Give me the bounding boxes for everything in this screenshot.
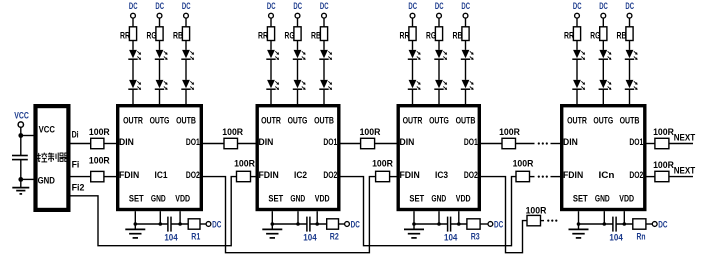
wire ICn cap to VDD junction <box>616 223 633 225</box>
svg-text:DO2: DO2 <box>186 169 200 180</box>
node ICn SET junction <box>577 222 581 226</box>
wire DO2 NEXT stub <box>669 176 693 178</box>
wire LED2 to IC2 OUTB pin <box>323 89 325 104</box>
IC3 pin label DIN <box>400 136 415 147</box>
wire resistor to IC2 FDIN <box>251 176 256 178</box>
resistor 100R (IC2 DO1 to IC3 DIN) <box>360 126 381 149</box>
svg-text:OUTB: OUTB <box>620 115 640 126</box>
capacitor C3 104 (IC3 decoupling) <box>444 217 458 243</box>
wire LED1 to LED2 (IC1 R) <box>132 59 134 80</box>
svg-text:DO2: DO2 <box>464 169 478 180</box>
ground (controller supply) <box>12 179 29 194</box>
LED D4R2 <box>572 80 585 90</box>
svg-text:104: 104 <box>609 232 623 243</box>
ground (IC1 SET/GND) <box>125 224 145 238</box>
LED D1B2 <box>181 80 194 90</box>
IC3 designator label <box>435 169 448 180</box>
svg-text:NEXT: NEXT <box>674 165 696 176</box>
resistor RR (IC1 R channel) <box>120 27 137 41</box>
ICn pin label DIN <box>563 136 578 147</box>
svg-text:DC: DC <box>573 0 582 11</box>
wire LED1 to LED2 (ICn G) <box>602 59 604 80</box>
LED D1G2 <box>155 80 168 90</box>
wire DC to resistor RB (IC3) <box>465 18 467 27</box>
wire DC to resistor RB (ICn) <box>629 18 631 27</box>
resistor 100R (Di series) <box>89 126 110 149</box>
svg-text:104: 104 <box>444 232 458 243</box>
wire from resistor to chain dots <box>516 143 535 145</box>
svg-text:DC: DC <box>494 218 503 229</box>
net label Fi <box>72 158 80 169</box>
wire IC1 SET to GND rail <box>135 223 168 225</box>
resistor RB (IC3 B channel) <box>453 27 470 41</box>
svg-text:RR: RR <box>258 30 268 41</box>
wire ICn DO1 out <box>647 143 655 145</box>
svg-text:ICn: ICn <box>599 169 615 180</box>
wire ICn SET pin drop <box>578 211 580 224</box>
svg-text:GND: GND <box>38 174 55 185</box>
resistor 100R (IC3 DO2 chain) <box>526 205 547 226</box>
wire IC2 DO2 routed toward ICn FDIN <box>341 177 517 246</box>
wire Fi from controller <box>71 176 91 178</box>
DC supply terminal (IC2 G column) <box>293 0 302 18</box>
wire LED2 to IC1 OUTB pin <box>185 89 187 104</box>
svg-text:RR: RR <box>120 30 130 41</box>
svg-text:RG: RG <box>590 30 600 41</box>
resistor 100R (IC1 DO2 to IC3 FDIN) <box>372 158 393 182</box>
svg-text:RB: RB <box>173 30 183 41</box>
svg-text:DC: DC <box>129 0 138 11</box>
resistor 100R (IC3 DO1 toward ICn DIN) <box>499 126 520 149</box>
node IC3 GND junction <box>437 222 441 226</box>
DC supply terminal (IC2 VDD) <box>345 218 360 229</box>
ICn pin label DO1 <box>629 136 643 147</box>
wire ICn GND pin drop <box>603 211 605 224</box>
wire LED1 to LED2 (IC2 B) <box>323 59 325 80</box>
svg-text:R3: R3 <box>471 230 480 241</box>
IC1 pin labels OUTR OUTG OUTB <box>123 115 196 126</box>
IC2 designator label <box>294 169 307 180</box>
svg-text:GND: GND <box>595 192 610 203</box>
svg-text:OUTB: OUTB <box>176 115 196 126</box>
IC IC1 box <box>118 106 202 210</box>
wire IC3 GND pin drop <box>438 211 440 224</box>
net label NEXT (DO1) <box>674 132 696 143</box>
wire IC2 resistor to DC terminal <box>339 223 345 225</box>
wire IC2 GND pin drop <box>297 211 299 224</box>
wire Fi2 routed to FDIN resistor of IC2 <box>71 177 237 246</box>
svg-text:RG: RG <box>285 30 295 41</box>
LED D1G1 <box>155 50 168 60</box>
IC IC2 box <box>257 106 339 210</box>
svg-text:Fi: Fi <box>72 158 80 169</box>
resistor RB (IC2 B channel) <box>311 27 328 41</box>
capacitor C4 104 (ICn decoupling) <box>609 217 623 243</box>
resistor R3 (IC3 supply) <box>467 219 480 242</box>
LED D4B1 <box>625 50 638 60</box>
resistor RR (ICn R channel) <box>564 27 581 41</box>
LED D4B2 <box>625 80 638 90</box>
DC supply terminal (ICn VDD) <box>652 218 667 229</box>
LED D3G2 <box>434 80 447 90</box>
wire DC to resistor RR (IC1) <box>132 18 134 27</box>
svg-text:DIN: DIN <box>400 136 415 147</box>
svg-text:RR: RR <box>400 30 410 41</box>
svg-text:FDIN: FDIN <box>400 169 420 180</box>
DC supply terminal (IC3 VDD) <box>488 218 503 229</box>
wire resistor to LED1 (IC3 R) <box>412 41 414 50</box>
DC supply terminal (IC2 R column) <box>267 0 276 18</box>
svg-text:DO1: DO1 <box>464 136 478 147</box>
resistor R1 (IC1 supply) <box>188 219 200 242</box>
wire LED2 to IC2 OUTR pin <box>270 89 272 104</box>
wire Fi resistor to IC1 FDIN <box>104 176 116 178</box>
IC2 pin label DO1 <box>323 136 337 147</box>
node IC2 VDD junction <box>315 222 319 226</box>
node IC1 VDD junction <box>178 222 182 226</box>
LED D2B2 <box>319 80 332 90</box>
svg-text:RG: RG <box>147 30 157 41</box>
node IC2 SET junction <box>271 222 275 226</box>
IC ICn box <box>562 106 645 210</box>
wire LED2 to IC3 OUTG pin <box>438 89 440 104</box>
resistor R2 (IC2 supply) <box>327 219 339 242</box>
svg-text:OUTB: OUTB <box>314 115 334 126</box>
svg-text:OUTG: OUTG <box>593 115 613 126</box>
IC3 pin label DO2 <box>464 169 478 180</box>
svg-text:FDIN: FDIN <box>259 169 279 180</box>
LED D2R1 <box>266 50 279 60</box>
wire LED2 to IC1 OUTG pin <box>159 89 161 104</box>
svg-text:100R: 100R <box>653 126 674 137</box>
svg-text:VDD: VDD <box>175 192 190 203</box>
wire LED1 to LED2 (ICn B) <box>629 59 631 80</box>
LED D2G1 <box>293 50 306 60</box>
wire IC3 cap to VDD junction <box>451 223 467 225</box>
ICn designator label <box>599 169 615 180</box>
svg-text:IC2: IC2 <box>294 169 307 180</box>
IC3 pin labels SET GND VDD <box>409 192 470 203</box>
IC3 pin label DO1 <box>464 136 478 147</box>
wire DC to resistor RG (IC1) <box>159 18 161 27</box>
controller label GND pin <box>38 174 55 185</box>
svg-text:NEXT: NEXT <box>674 132 696 143</box>
net label Fi2 <box>72 182 85 193</box>
DC supply terminal (IC2 B column) <box>320 0 329 18</box>
wire resistor to IC3 FDIN <box>390 176 397 178</box>
wire resistor to LED1 (IC2 B) <box>323 41 325 50</box>
IC1 pin label FDIN <box>119 169 139 180</box>
svg-text:100R: 100R <box>360 126 381 137</box>
svg-text:RB: RB <box>453 30 463 41</box>
wire to IC2 DIN <box>238 143 256 145</box>
wire resistor to chain dots (FDIN) <box>530 176 535 178</box>
svg-text:DIN: DIN <box>259 136 274 147</box>
node: VCC junction <box>18 133 23 138</box>
wire LED1 to LED2 (IC3 B) <box>465 59 467 80</box>
wire ICn VDD pin drop <box>623 211 625 224</box>
IC1 pin labels SET GND VDD <box>129 192 190 203</box>
resistor RR (IC3 R channel) <box>400 27 417 41</box>
LED D4G2 <box>599 80 612 90</box>
svg-text:OUTG: OUTG <box>429 115 449 126</box>
svg-text:FDIN: FDIN <box>563 169 583 180</box>
svg-text:100R: 100R <box>526 205 547 216</box>
wire resistor to LED1 (IC3 B) <box>465 41 467 50</box>
IC1 designator label <box>155 169 168 180</box>
svg-text:FDIN: FDIN <box>119 169 139 180</box>
svg-text:104: 104 <box>303 232 317 243</box>
svg-text:DO2: DO2 <box>323 169 337 180</box>
wire VCC junction to capacitor C0 <box>20 136 22 156</box>
VCC supply terminal <box>14 110 29 128</box>
resistor 100R (Fi2 to IC2 FDIN) <box>234 158 255 182</box>
resistor RG (IC3 G channel) <box>426 27 443 41</box>
LED D4G1 <box>599 50 612 60</box>
IC2 pin label DIN <box>259 136 274 147</box>
wire IC1 GND pin drop <box>159 211 161 224</box>
ground (IC2 SET/GND) <box>262 224 282 238</box>
wire IC1 SET pin drop <box>134 211 136 224</box>
svg-text:Rn: Rn <box>637 230 646 241</box>
ICn pin label DO2 <box>629 169 643 180</box>
wire LED2 to ICn OUTG pin <box>602 89 604 104</box>
wire LED1 to LED2 (IC3 G) <box>438 59 440 80</box>
svg-text:RG: RG <box>426 30 436 41</box>
svg-text:RB: RB <box>311 30 321 41</box>
IC IC3 box <box>398 106 479 210</box>
wire LED2 to ICn OUTR pin <box>576 89 578 104</box>
wire DC to resistor RR (IC3) <box>412 18 414 27</box>
svg-text:OUTR: OUTR <box>123 115 143 126</box>
resistor RB (IC1 B channel) <box>173 27 190 41</box>
wire LED1 to LED2 (ICn R) <box>576 59 578 80</box>
svg-text:100R: 100R <box>89 155 110 166</box>
IC2 pin labels OUTR OUTG OUTB <box>261 115 334 126</box>
wire IC3 resistor to DC terminal <box>480 223 488 225</box>
wire IC3 DO1 out <box>481 143 502 145</box>
wire LED2 to IC2 OUTG pin <box>297 89 299 104</box>
LED D3B1 <box>461 50 474 60</box>
DC supply terminal (IC1 R column) <box>129 0 138 18</box>
LED D2B1 <box>319 50 332 60</box>
wire IC1 DO2 routed to IC3 FDIN <box>203 177 376 253</box>
svg-text:DC: DC <box>435 0 444 11</box>
svg-text:DC: DC <box>155 0 164 11</box>
svg-text:DIN: DIN <box>563 136 578 147</box>
node IC1 GND junction <box>159 222 163 226</box>
LED D3R2 <box>408 80 421 90</box>
svg-text:104: 104 <box>164 232 178 243</box>
svg-text:100R: 100R <box>234 158 255 169</box>
LED D3R1 <box>408 50 421 60</box>
IC3 pin labels OUTR OUTG OUTB <box>403 115 476 126</box>
net label NEXT (DO2) <box>674 165 696 176</box>
svg-text:DIN: DIN <box>119 136 134 147</box>
wire ICn resistor to DC terminal <box>646 223 652 225</box>
wire LED1 to LED2 (IC3 R) <box>412 59 414 80</box>
node IC1 SET junction <box>134 222 138 226</box>
node IC3 VDD junction <box>457 222 461 226</box>
wire Di from controller <box>71 143 91 145</box>
wire LED1 to LED2 (IC1 G) <box>159 59 161 80</box>
wire LED2 to IC3 OUTR pin <box>412 89 414 104</box>
svg-text:IC1: IC1 <box>155 169 168 180</box>
IC2 pin labels SET GND VDD <box>268 192 329 203</box>
svg-text:GND: GND <box>290 192 305 203</box>
node: GND junction <box>18 177 23 182</box>
LED D1R2 <box>128 80 141 90</box>
LED D1B1 <box>181 50 194 60</box>
svg-text:DC: DC <box>320 0 329 11</box>
resistor 100R (toward ICn FDIN) <box>513 158 534 182</box>
wire DC to resistor RG (IC3) <box>438 18 440 27</box>
wire GND junction to controller GND pin <box>21 178 36 180</box>
IC3 pin label FDIN <box>400 169 420 180</box>
svg-text:DC: DC <box>408 0 417 11</box>
wire resistor to LED1 (ICn B) <box>629 41 631 50</box>
DC supply terminal (IC1 B column) <box>182 0 191 18</box>
svg-text:OUTR: OUTR <box>403 115 423 126</box>
svg-text:DC: DC <box>267 0 276 11</box>
ICn pin label FDIN <box>563 169 583 180</box>
capacitor C1 104 (IC1 decoupling) <box>164 217 178 243</box>
wire IC3 SET pin drop <box>413 211 415 224</box>
wire DC to resistor RB (IC2) <box>323 18 325 27</box>
wire ICn SET to GND rail <box>579 223 613 225</box>
wire DC to resistor RG (IC2) <box>297 18 299 27</box>
DC supply terminal (IC3 R column) <box>408 0 417 18</box>
controller U0 box <box>36 106 69 210</box>
DC supply terminal (ICn B column) <box>625 0 634 18</box>
resistor 100R (IC1 DO1 to IC2 DIN) <box>222 126 243 149</box>
wire LED2 to IC1 OUTR pin <box>132 89 134 104</box>
svg-text:DC: DC <box>293 0 302 11</box>
LED D4R1 <box>572 50 585 60</box>
wire capacitor C0 to GND junction <box>20 160 22 180</box>
resistor 100R (Fi series) <box>89 155 110 182</box>
svg-text:VDD: VDD <box>619 192 634 203</box>
svg-text:OUTG: OUTG <box>150 115 170 126</box>
LED D3B2 <box>461 80 474 90</box>
resistor 100R (ICn DO2 to NEXT) <box>653 159 674 182</box>
svg-text:OUTR: OUTR <box>567 115 587 126</box>
capacitor C2 104 (IC2 decoupling) <box>303 217 317 243</box>
wire resistor to LED1 (IC1 G) <box>159 41 161 50</box>
wire IC2 DO1 out <box>341 143 361 145</box>
svg-text:OUTR: OUTR <box>261 115 281 126</box>
controller label VCC pin <box>39 123 55 134</box>
svg-text:VDD: VDD <box>315 192 330 203</box>
wire dots to ICn FDIN <box>551 176 561 178</box>
IC2 pin label FDIN <box>259 169 279 180</box>
svg-text:VDD: VDD <box>456 192 471 203</box>
resistor RG (ICn G channel) <box>590 27 607 41</box>
svg-text:100R: 100R <box>222 126 243 137</box>
ground (ICn SET/GND) <box>569 224 589 238</box>
svg-text:SET: SET <box>573 192 588 203</box>
wire resistor to LED1 (ICn G) <box>602 41 604 50</box>
wire resistor to LED1 (IC1 R) <box>132 41 134 50</box>
svg-text:100R: 100R <box>89 126 110 137</box>
resistor 100R (ICn DO1 to NEXT) <box>653 126 674 149</box>
wire to IC3 DIN <box>375 143 397 145</box>
svg-text:SET: SET <box>409 192 424 203</box>
wire DC to resistor RR (ICn) <box>576 18 578 27</box>
svg-text:DC: DC <box>658 218 667 229</box>
svg-text:OUTG: OUTG <box>288 115 308 126</box>
svg-text:R2: R2 <box>330 230 339 241</box>
wire resistor to LED1 (IC2 G) <box>297 41 299 50</box>
node IC3 SET junction <box>412 222 416 226</box>
svg-text:100R: 100R <box>372 158 393 169</box>
wire IC2 SET pin drop <box>271 211 273 224</box>
wire resistor to LED1 (IC2 R) <box>270 41 272 50</box>
wire resistor stub <box>541 220 545 222</box>
wire IC1 VDD pin drop <box>179 211 181 224</box>
svg-text:RB: RB <box>617 30 627 41</box>
svg-text:SET: SET <box>129 192 144 203</box>
svg-text:100R: 100R <box>499 126 520 137</box>
svg-text:GND: GND <box>151 192 166 203</box>
svg-text:DC: DC <box>461 0 470 11</box>
capacitor C0 (supply decoupling) <box>12 156 28 160</box>
resistor RG (IC2 G channel) <box>285 27 302 41</box>
wire IC1 resistor to DC terminal <box>200 223 206 225</box>
controller label 控制器 (controller) <box>37 153 69 162</box>
LED D2R2 <box>266 80 279 90</box>
svg-text:VCC: VCC <box>14 110 29 121</box>
ellipsis dots (omitted stages, FDIN chain) <box>538 176 548 178</box>
node ICn GND junction <box>603 222 607 226</box>
IC1 pin label DO2 <box>186 169 200 180</box>
svg-text:R1: R1 <box>191 230 200 241</box>
IC1 pin label DO1 <box>186 136 200 147</box>
svg-text:DC: DC <box>182 0 191 11</box>
wire IC2 cap to VDD junction <box>310 223 327 225</box>
node ICn VDD junction <box>623 222 627 226</box>
ground (IC3 SET/GND) <box>404 224 424 238</box>
svg-text:Di: Di <box>72 128 79 139</box>
wire resistor to LED1 (IC1 B) <box>185 41 187 50</box>
wire IC3 VDD pin drop <box>458 211 460 224</box>
wire LED1 to LED2 (IC2 G) <box>297 59 299 80</box>
wire IC3 DO2 routed toward hidden stage FDIN <box>481 177 527 253</box>
ICn pin labels SET GND VDD <box>573 192 634 203</box>
wire DC to resistor RB (IC1) <box>185 18 187 27</box>
svg-text:DC: DC <box>351 218 360 229</box>
wire LED1 to LED2 (IC1 B) <box>185 59 187 80</box>
DC supply terminal (IC1 VDD) <box>206 218 221 229</box>
svg-text:DO1: DO1 <box>629 136 643 147</box>
DC supply terminal (IC3 G column) <box>435 0 444 18</box>
svg-text:SET: SET <box>268 192 283 203</box>
resistor RB (ICn B channel) <box>617 27 634 41</box>
svg-text:RR: RR <box>564 30 574 41</box>
net label Di <box>72 128 79 139</box>
svg-text:DC: DC <box>212 218 221 229</box>
wire DC to resistor RR (IC2) <box>270 18 272 27</box>
ellipsis dots (omitted stages, DIN chain) <box>538 142 548 144</box>
IC1 pin label DIN <box>119 136 134 147</box>
wire IC2 VDD pin drop <box>316 211 318 224</box>
wire IC1 cap to VDD junction <box>171 223 188 225</box>
wire IC3 SET to GND rail <box>414 223 448 225</box>
wire IC2 SET to GND rail <box>272 223 307 225</box>
resistor RG (IC1 G channel) <box>147 27 164 41</box>
resistor RR (IC2 R channel) <box>258 27 275 41</box>
svg-text:VCC: VCC <box>39 123 55 134</box>
